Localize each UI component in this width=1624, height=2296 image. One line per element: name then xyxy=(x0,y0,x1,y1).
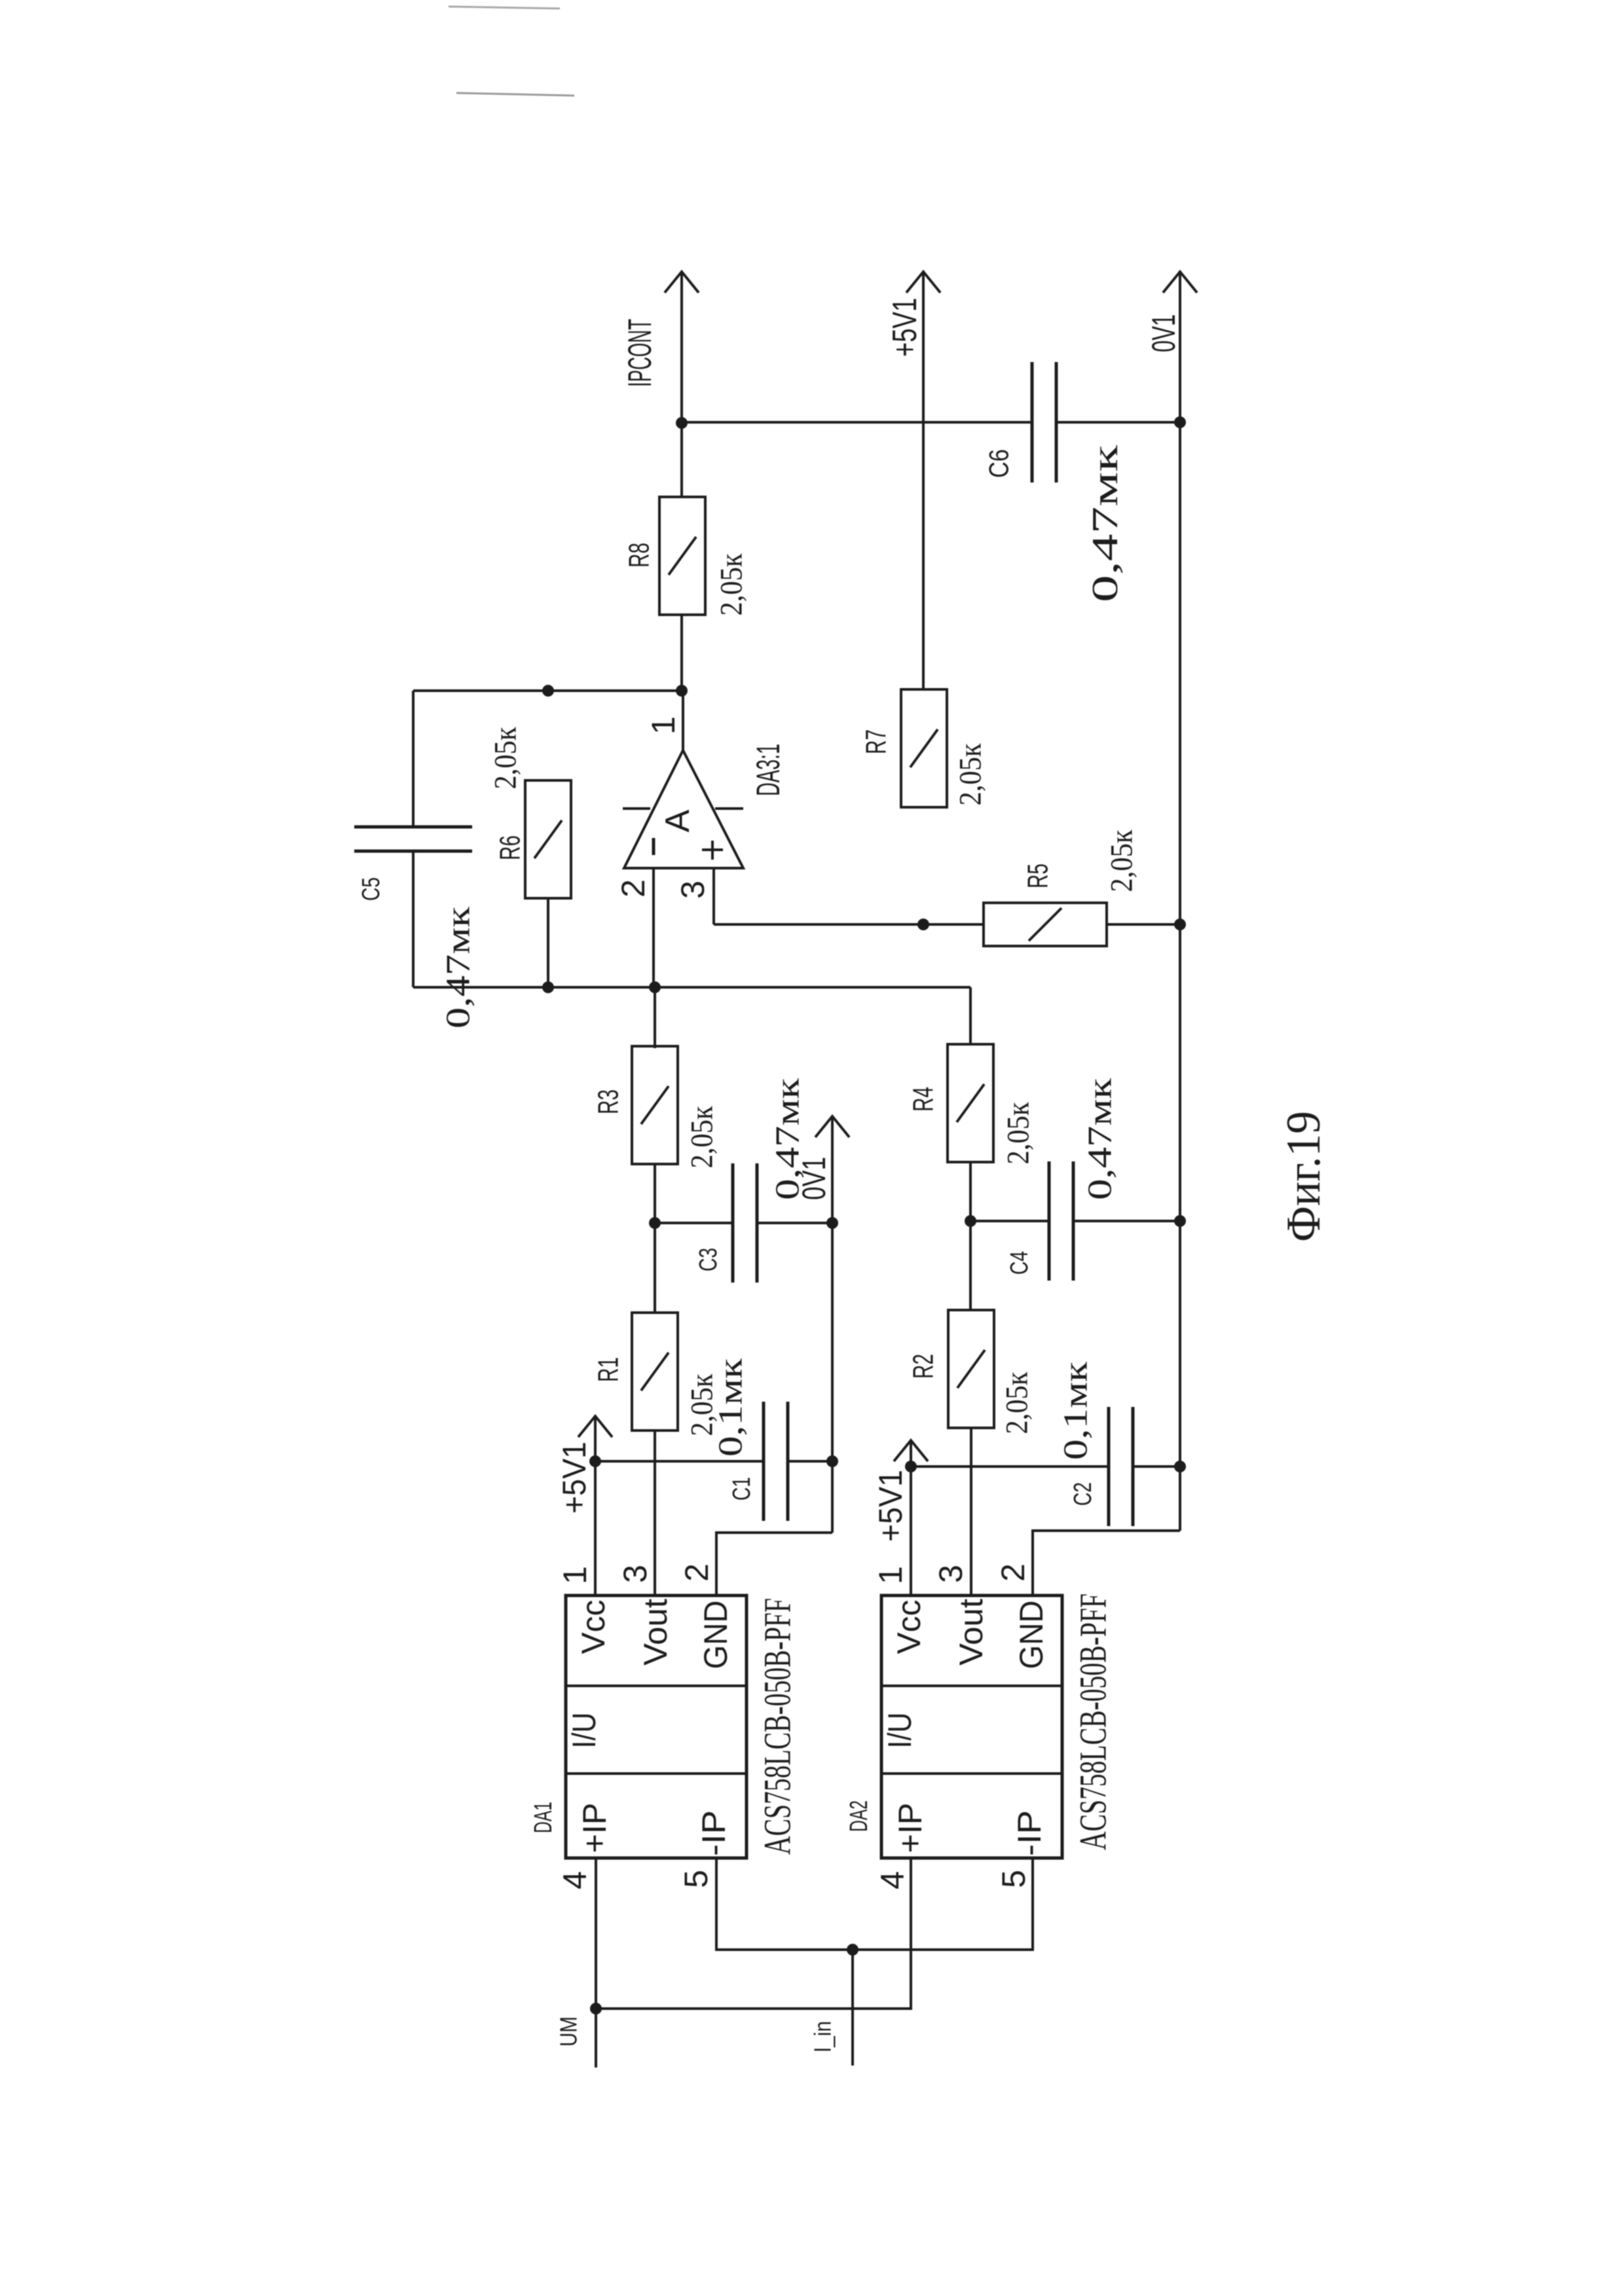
wire I_in lead xyxy=(851,1950,854,2066)
wire C1 to 0V1 stub xyxy=(788,1460,832,1463)
junction op-amp output node xyxy=(676,685,688,697)
value C6 0,47mk xyxy=(1085,445,1126,602)
wire IPCONT node to R8 xyxy=(680,423,683,497)
svg-text:Vcc: Vcc xyxy=(891,1600,927,1654)
pin name -IP (DA2) xyxy=(1011,1810,1048,1856)
wire DA2 Vcc rail to C2 xyxy=(911,1465,1109,1468)
wire DA2 node to C4 xyxy=(970,1220,1049,1222)
svg-text:GND: GND xyxy=(1013,1601,1050,1669)
wire C2 to 0V1 xyxy=(1133,1465,1180,1468)
pin name I/U (DA1) xyxy=(566,1713,602,1749)
wire inverting rail corner to R4 xyxy=(969,987,972,1045)
svg-text:2,05к: 2,05к xyxy=(714,553,749,616)
pin 3 label (DA2) xyxy=(932,1565,969,1583)
net 0V1 (stub arrow at C3) xyxy=(796,1116,849,1533)
pin 2 label (DA2) xyxy=(995,1563,1031,1582)
wire IPCONT bus (left of C6) xyxy=(682,421,1032,424)
svg-text:C1: C1 xyxy=(728,1477,756,1501)
svg-text:Vcc: Vcc xyxy=(575,1600,612,1654)
capacitor C2 xyxy=(1069,1407,1133,1526)
value C5 0,47mk xyxy=(440,906,477,1029)
svg-text:R1: R1 xyxy=(593,1357,625,1382)
svg-text:2,05к: 2,05к xyxy=(953,743,988,806)
value C4 0,47mk xyxy=(1082,1078,1119,1200)
junction DA2 output node xyxy=(965,1215,976,1227)
pin 4 label (DA1) xyxy=(557,1871,593,1889)
value R2 2,05k xyxy=(1000,1372,1035,1434)
svg-text:R6: R6 xyxy=(494,835,526,860)
wire feedback bottom rail xyxy=(413,986,970,989)
svg-text:3: 3 xyxy=(617,1565,654,1583)
svg-text:+IP: +IP xyxy=(576,1803,613,1853)
svg-text:-IP: -IP xyxy=(1011,1810,1048,1856)
pin name +IP (DA1) xyxy=(576,1803,613,1853)
wire DA1 Vcc rail to C1 xyxy=(595,1460,764,1463)
wire 0V1 to DA2 GND step xyxy=(1033,1531,1180,1595)
svg-text:0,47мк: 0,47мк xyxy=(1082,1078,1119,1200)
wire op-amp pin3 down xyxy=(712,868,715,924)
capacitor C5 xyxy=(354,691,472,987)
wire pin3 rail to R5 xyxy=(714,923,984,926)
scan artifact line (lower) xyxy=(456,93,574,96)
svg-text:0,1мк: 0,1мк xyxy=(1058,1361,1095,1460)
wire UM node to DA2 pin4 xyxy=(596,1858,911,2009)
svg-text:0,1мк: 0,1мк xyxy=(712,1358,750,1457)
value R6 2,05k xyxy=(489,727,523,790)
svg-text:0V1: 0V1 xyxy=(1145,314,1182,352)
junction I_in node xyxy=(847,1944,858,1956)
svg-text:2,05к: 2,05к xyxy=(1000,1372,1035,1434)
wire DA1 node to R1 xyxy=(654,1223,656,1313)
junction DA1 output node xyxy=(649,1217,661,1229)
svg-text:0,47мк: 0,47мк xyxy=(1085,445,1126,602)
junction bus/0V1 xyxy=(1174,416,1186,428)
svg-text:R2: R2 xyxy=(908,1354,940,1379)
resistor R7 xyxy=(860,689,948,807)
resistor R8 xyxy=(623,497,706,615)
junction R6 top xyxy=(542,685,554,697)
wire DA1 node to C3 xyxy=(655,1222,733,1224)
svg-text:I_in: I_in xyxy=(809,2021,836,2052)
svg-text:I/U: I/U xyxy=(566,1713,602,1749)
pin 5 label (DA1) xyxy=(678,1870,714,1888)
svg-text:А: А xyxy=(659,809,697,832)
svg-text:C5: C5 xyxy=(358,877,385,901)
resistor R1 xyxy=(593,1313,678,1430)
wire R2 to DA2 Vout pin xyxy=(970,1428,972,1595)
svg-text:4: 4 xyxy=(557,1871,593,1889)
pin 1 label (DA1) xyxy=(557,1566,593,1584)
type label ACS758LCB-050B-PFF (DA2) xyxy=(1072,1594,1115,1850)
net UM label xyxy=(555,2016,582,2047)
pin name -IP (DA1) xyxy=(695,1810,732,1856)
IC DA1 body xyxy=(566,1595,747,1858)
svg-text:Vout: Vout xyxy=(953,1599,989,1666)
svg-text:2,05к: 2,05к xyxy=(685,1106,720,1169)
junction 0V1 stub/row xyxy=(826,1217,838,1229)
svg-text:0V1: 0V1 xyxy=(796,1157,832,1200)
caption Fig.19 xyxy=(1277,1111,1331,1242)
capacitor C1 xyxy=(728,1402,788,1521)
wire C4 to 0V1 xyxy=(1073,1220,1180,1222)
junction UM node xyxy=(590,2003,602,2014)
junction inverting node xyxy=(649,981,661,993)
svg-text:+5V1: +5V1 xyxy=(556,1442,593,1514)
junction R5/0V1 xyxy=(1174,919,1186,930)
svg-text:2: 2 xyxy=(678,1563,715,1582)
resistor R5 xyxy=(984,864,1107,946)
capacitor C3 xyxy=(695,1163,757,1283)
wire DA1 pin4 to UM node xyxy=(595,1858,597,2068)
svg-text:R3: R3 xyxy=(593,1089,625,1114)
wire R5 to 0V1 xyxy=(1107,923,1180,926)
svg-text:2: 2 xyxy=(615,879,652,898)
svg-text:2,05к: 2,05к xyxy=(489,727,523,790)
svg-text:Vout: Vout xyxy=(637,1599,674,1666)
resistor R6 xyxy=(494,780,572,898)
wire C6 to 0V1 xyxy=(1056,421,1180,424)
svg-text:I/U: I/U xyxy=(881,1713,918,1749)
net 0V1 (main return arrow) xyxy=(1145,272,1197,1531)
type label ACS758LCB-050B-PFF (DA1) xyxy=(756,1598,799,1855)
pin name Vout (DA2) xyxy=(953,1599,989,1666)
wire R3 to DA1 output node xyxy=(654,1163,656,1223)
pin name Vcc (DA2) xyxy=(891,1600,927,1654)
resistor R4 xyxy=(908,1044,994,1162)
value R3 2,05k xyxy=(685,1106,720,1169)
resistor R2 xyxy=(908,1310,995,1428)
wire feedback top rail xyxy=(413,689,682,692)
svg-text:ACS758LCB-050B-PFF: ACS758LCB-050B-PFF xyxy=(756,1598,799,1855)
wire R4 to DA2 output node xyxy=(969,1161,972,1221)
pin 1 label (DA2) xyxy=(872,1566,909,1584)
junction DA1 Vcc node xyxy=(589,1455,601,1467)
svg-text:R8: R8 xyxy=(623,543,655,568)
net +5V1 (DA1 arrow) xyxy=(556,1416,612,1595)
svg-text:1: 1 xyxy=(872,1566,909,1584)
svg-text:R5: R5 xyxy=(1022,864,1054,888)
svg-text:UM: UM xyxy=(555,2016,582,2047)
pin name Vcc (DA1) xyxy=(575,1600,612,1654)
svg-text:C4: C4 xyxy=(1006,1251,1033,1275)
svg-text:Фиг.19: Фиг.19 xyxy=(1277,1111,1331,1242)
svg-text:3: 3 xyxy=(932,1565,969,1583)
wire op-amp pin2 to inverting node xyxy=(652,868,655,987)
svg-text:C3: C3 xyxy=(695,1248,722,1271)
value R4 2,05k xyxy=(1001,1102,1036,1165)
IC DA2 body xyxy=(881,1595,1062,1858)
wire R1 to DA1 Vout pin xyxy=(654,1430,656,1595)
svg-text:0,47мк: 0,47мк xyxy=(440,906,477,1029)
net +5V1 (DA2 arrow) xyxy=(872,1440,928,1595)
svg-text:3: 3 xyxy=(674,881,711,899)
pin 2 label (DA1) xyxy=(678,1563,715,1582)
svg-text:C6: C6 xyxy=(984,449,1014,478)
svg-text:R4: R4 xyxy=(908,1087,940,1112)
svg-text:ACS758LCB-050B-PFF: ACS758LCB-050B-PFF xyxy=(1072,1594,1115,1850)
refdes DA1 xyxy=(530,1802,557,1833)
svg-text:1: 1 xyxy=(557,1566,593,1584)
value R8 2,05k xyxy=(714,553,749,616)
svg-text:2: 2 xyxy=(995,1563,1031,1582)
svg-text:IPCONT: IPCONT xyxy=(621,319,658,387)
wire R6 bottom xyxy=(547,898,549,987)
net +5V1 (main supply arrow) xyxy=(886,272,940,689)
wire 0V1 stub to DA1 GND step xyxy=(716,1533,832,1595)
wire DA2 node to R2 xyxy=(969,1221,972,1310)
refdes DA2 xyxy=(845,1800,873,1832)
value C1 0,1mk xyxy=(712,1358,750,1457)
svg-text:R7: R7 xyxy=(860,729,893,754)
svg-text:C2: C2 xyxy=(1069,1482,1097,1506)
pin name GND (DA2) xyxy=(1013,1601,1050,1669)
pin 1 label (DA3) xyxy=(645,716,682,735)
svg-text:GND: GND xyxy=(697,1601,734,1669)
svg-text:2,05к: 2,05к xyxy=(1105,829,1139,892)
wire DA1 pin5 to DA2 pin5 xyxy=(716,1858,1033,1950)
value R7 2,05k xyxy=(953,743,988,806)
pin name Vout (DA1) xyxy=(637,1599,674,1666)
junction R7 bottom xyxy=(917,919,929,930)
svg-text:DA1: DA1 xyxy=(530,1802,557,1833)
pin 3 label (DA3) xyxy=(674,881,711,899)
op-amp DA3:1 xyxy=(623,691,786,868)
svg-text:-IP: -IP xyxy=(695,1810,732,1856)
junction DA2 Vcc node xyxy=(905,1461,917,1472)
pin name GND (DA1) xyxy=(697,1601,734,1669)
junction IPCONT node xyxy=(676,417,688,429)
svg-text:5: 5 xyxy=(678,1870,714,1888)
svg-text:+IP: +IP xyxy=(892,1803,929,1853)
junction C2/0V1 xyxy=(1174,1461,1186,1472)
pin 5 label (DA2) xyxy=(995,1870,1032,1888)
value R5 2,05k xyxy=(1105,829,1139,892)
wire inverting node to R3 xyxy=(654,987,656,1048)
pin 3 label (DA1) xyxy=(617,1565,654,1583)
resistor R3 xyxy=(593,1046,678,1164)
junction R6 bottom xyxy=(542,981,554,993)
svg-text:+5V1: +5V1 xyxy=(872,1470,909,1542)
junction C4 row/0V1 xyxy=(1174,1215,1186,1227)
svg-text:4: 4 xyxy=(874,1871,911,1889)
svg-text:2,05к: 2,05к xyxy=(1001,1102,1036,1165)
svg-text:+5V1: +5V1 xyxy=(886,298,924,357)
svg-text:1: 1 xyxy=(645,716,682,735)
value R1 2,05k xyxy=(685,1374,720,1436)
svg-text:DA2: DA2 xyxy=(845,1800,873,1832)
svg-text:DA3:1: DA3:1 xyxy=(750,744,786,796)
wire C3 to 0V1 stub xyxy=(757,1222,832,1224)
pin name I/U (DA2) xyxy=(881,1713,918,1749)
net IPCONT (output arrow) xyxy=(621,272,699,423)
wire R8 to op-amp output node xyxy=(680,615,683,691)
svg-text:5: 5 xyxy=(995,1870,1032,1888)
pin name +IP (DA2) xyxy=(892,1803,929,1853)
pin 4 label (DA2) xyxy=(874,1871,911,1889)
junction C1/0V1 stub xyxy=(826,1455,838,1467)
capacitor C6 xyxy=(984,362,1057,483)
pin 2 label (DA3) xyxy=(615,879,652,898)
net I_in label xyxy=(809,2021,836,2052)
scan artifact line (top) xyxy=(449,7,560,9)
value C3 0,47mk xyxy=(769,1078,807,1200)
capacitor C4 xyxy=(1006,1161,1073,1281)
value C2 0,1mk xyxy=(1058,1361,1095,1460)
